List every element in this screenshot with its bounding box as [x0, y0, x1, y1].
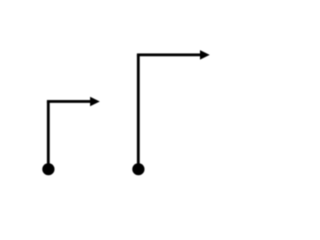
arrowhead (right arrow) [200, 50, 210, 60]
wire (right horizontal segment) [137, 53, 201, 56]
node dot (left glyph origin) [42, 163, 54, 175]
wire (left horizontal segment) [47, 100, 91, 103]
wire (left vertical segment) [47, 101, 50, 169]
arrowhead (left arrow) [90, 97, 100, 107]
node dot (right glyph origin) [132, 163, 144, 175]
wire (right vertical segment) [137, 55, 140, 169]
